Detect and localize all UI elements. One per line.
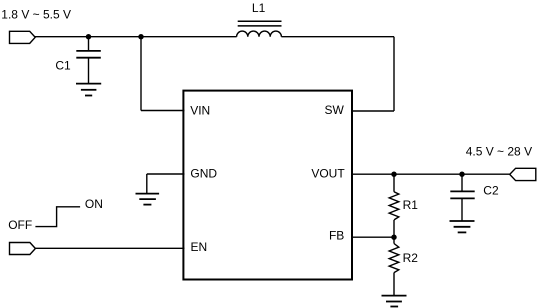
svg-text:4.5 V ~ 28 V: 4.5 V ~ 28 V — [466, 145, 532, 159]
svg-text:VIN: VIN — [190, 104, 210, 118]
svg-text:FB: FB — [329, 229, 344, 243]
svg-text:C2: C2 — [483, 184, 499, 198]
svg-text:GND: GND — [190, 166, 217, 180]
svg-text:SW: SW — [324, 103, 344, 117]
svg-text:L1: L1 — [252, 1, 266, 15]
svg-text:C1: C1 — [55, 59, 71, 73]
svg-text:1.8 V ~ 5.5 V: 1.8 V ~ 5.5 V — [1, 8, 71, 22]
svg-text:R2: R2 — [403, 251, 419, 265]
svg-text:R1: R1 — [403, 198, 419, 212]
svg-text:OFF: OFF — [8, 218, 32, 232]
svg-text:ON: ON — [85, 197, 103, 211]
svg-text:VOUT: VOUT — [311, 167, 345, 181]
svg-text:EN: EN — [191, 240, 208, 254]
